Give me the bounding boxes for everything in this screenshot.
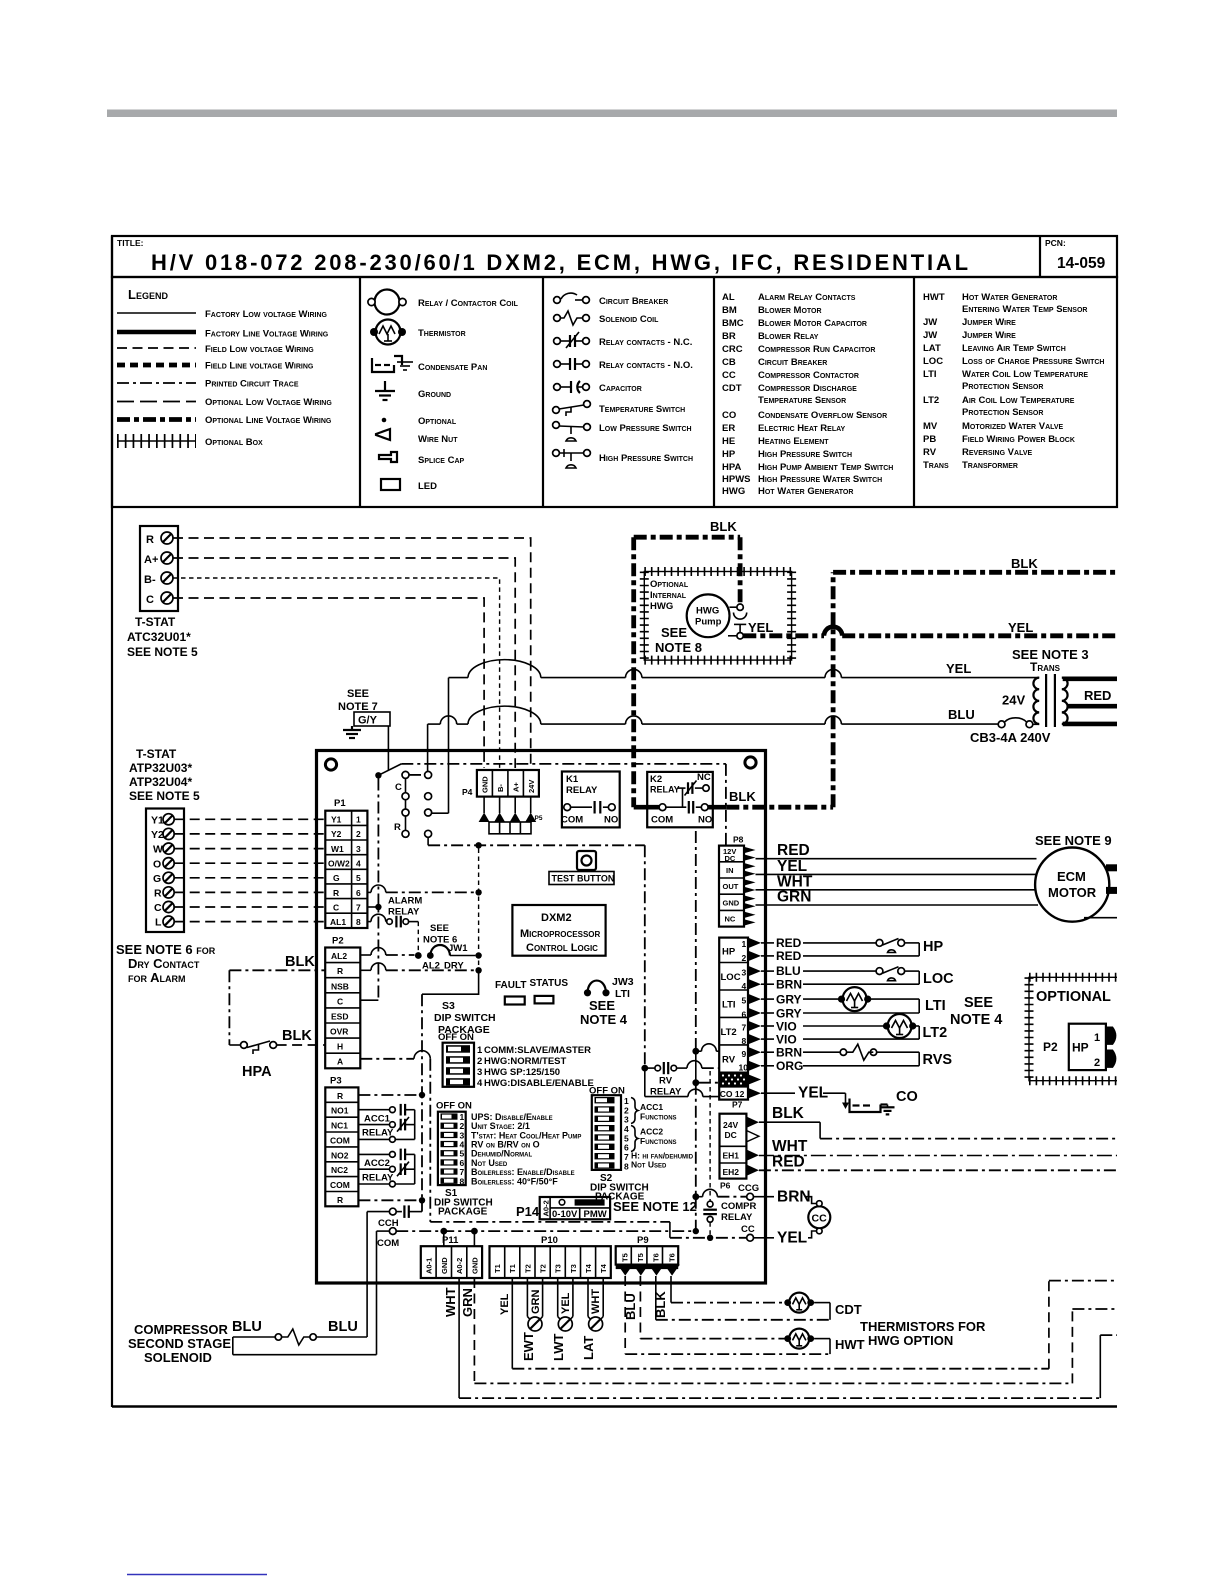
svg-text:8: 8 <box>356 917 361 927</box>
svg-text:P2: P2 <box>1043 1040 1058 1054</box>
relay ACC2 contacts <box>358 1149 414 1187</box>
svg-text:3: 3 <box>477 1067 482 1078</box>
svg-text:24V: 24V <box>723 1120 738 1130</box>
svg-text:ATP32U04*: ATP32U04* <box>129 775 192 789</box>
wire CDT upper lead <box>671 1302 786 1304</box>
svg-text:Boilerless: Enable/Disable: Boilerless: Enable/Disable <box>471 1167 575 1177</box>
svg-text:T5: T5 <box>621 1253 630 1262</box>
svg-text:S3: S3 <box>442 1000 455 1012</box>
svg-text:GRN: GRN <box>777 889 811 906</box>
svg-text:Not Used: Not Used <box>631 1160 667 1170</box>
svg-text:3: 3 <box>742 968 747 978</box>
svg-text:CDT: CDT <box>722 383 742 394</box>
svg-text:OPTIONAL: OPTIONAL <box>1036 989 1111 1005</box>
svg-text:T2: T2 <box>523 1264 532 1273</box>
trace RV relay feed x644 <box>644 845 646 1068</box>
legend symbol: temperature switch <box>553 401 591 416</box>
thermistor CDT <box>784 1293 814 1313</box>
svg-text:BLK: BLK <box>772 1105 805 1122</box>
P2 connector <box>325 948 360 1069</box>
wire GRN GND bottom <box>474 1278 1117 1383</box>
control board outline <box>317 751 766 1284</box>
wire BLK to P2 R from HPA riser <box>229 969 325 971</box>
svg-text:FAULT: FAULT <box>495 980 526 991</box>
svg-text:NO: NO <box>604 815 618 826</box>
svg-text:Jumper Wire: Jumper Wire <box>962 317 1016 328</box>
svg-text:CCG: CCG <box>738 1183 759 1194</box>
svg-text:BRN: BRN <box>777 1189 811 1206</box>
svg-text:Relay / Contactor Coil: Relay / Contactor Coil <box>418 298 519 309</box>
wire BLK thick HWG top <box>634 535 740 540</box>
svg-text:CCH: CCH <box>378 1218 399 1229</box>
svg-text:O: O <box>153 859 161 871</box>
S2 brace ACC2 <box>631 1126 638 1152</box>
svg-text:LAT: LAT <box>581 1336 596 1360</box>
svg-text:TEST BUTTON: TEST BUTTON <box>552 874 615 884</box>
wire B- to P4 B- <box>173 578 500 768</box>
svg-text:K2: K2 <box>650 774 662 785</box>
svg-text:YEL: YEL <box>798 1085 828 1102</box>
svg-text:BLK: BLK <box>282 1028 312 1044</box>
svg-text:MV: MV <box>923 421 938 432</box>
svg-text:HWG: HWG <box>650 601 673 612</box>
legend symbol: splice cap <box>379 452 397 462</box>
svg-text:NC1: NC1 <box>331 1121 348 1131</box>
svg-text:TITLE:: TITLE: <box>117 238 144 248</box>
svg-text:BLU: BLU <box>232 1319 262 1335</box>
wire P2 C to vertical trace <box>360 999 378 1001</box>
svg-text:OFF ON: OFF ON <box>438 1032 474 1043</box>
svg-text:4: 4 <box>356 859 361 869</box>
wires T2 pair to EWT nut <box>527 1278 542 1321</box>
svg-text:RELAY: RELAY <box>650 785 680 795</box>
svg-text:P8: P8 <box>733 835 744 845</box>
transformer secondary coil <box>1062 678 1068 724</box>
svg-text:4: 4 <box>742 981 747 991</box>
wire YEL T1 <box>512 1278 1117 1369</box>
svg-text:SEE NOTE 5: SEE NOTE 5 <box>129 789 200 803</box>
svg-text:LOC: LOC <box>923 356 943 367</box>
wire BRN to CC coil <box>754 1197 817 1204</box>
svg-text:ACC1: ACC1 <box>640 1102 663 1112</box>
trace CC feed line <box>430 1222 746 1238</box>
LED fault <box>505 997 525 1005</box>
svg-text:Thermistor: Thermistor <box>418 328 466 339</box>
svg-text:Circuit Breaker: Circuit Breaker <box>599 296 668 307</box>
svg-text:A: A <box>337 1057 343 1067</box>
svg-text:1: 1 <box>477 1045 483 1056</box>
trace COM line y1231 <box>396 1230 696 1232</box>
svg-text:H: H <box>337 1042 343 1052</box>
svg-text:Solenoid Coil: Solenoid Coil <box>599 314 659 325</box>
svg-text:RED: RED <box>1084 688 1111 703</box>
svg-text:High Pressure Switch: High Pressure Switch <box>599 453 693 464</box>
svg-text:LT2: LT2 <box>923 1025 948 1041</box>
svg-text:JW: JW <box>923 317 937 328</box>
wire CCG with hop <box>699 1189 747 1196</box>
svg-text:NSB: NSB <box>331 982 349 992</box>
svg-text:C: C <box>333 902 339 912</box>
svg-text:LAT: LAT <box>923 343 941 354</box>
svg-text:T5: T5 <box>636 1253 645 1262</box>
svg-text:BLU: BLU <box>948 707 975 722</box>
svg-text:P4: P4 <box>462 787 473 797</box>
svg-text:EH2: EH2 <box>723 1167 740 1177</box>
wire P3 R8 <box>358 1199 418 1201</box>
node alarm relay C7 <box>375 904 381 910</box>
svg-text:Relay contacts - N.O.: Relay contacts - N.O. <box>599 360 693 371</box>
svg-text:SEE: SEE <box>589 998 615 1013</box>
wire BLU 24v drop into board <box>427 724 429 771</box>
svg-text:NO1: NO1 <box>331 1106 349 1116</box>
wires T3 pair to LWT nut <box>558 1278 573 1321</box>
svg-text:Ground: Ground <box>418 389 451 400</box>
svg-text:COMPRESSOR: COMPRESSOR <box>134 1322 229 1337</box>
svg-text:Loss of Charge Pressure Switch: Loss of Charge Pressure Switch <box>962 356 1104 367</box>
svg-text:A+: A+ <box>144 554 158 566</box>
svg-text:Factory Line Voltage Wiring: Factory Line Voltage Wiring <box>205 329 329 340</box>
terminal COM <box>377 1228 397 1235</box>
svg-text:COM: COM <box>377 1238 399 1249</box>
COMPR relay contact <box>703 1071 717 1235</box>
wire CCH riser to solenoid <box>366 1212 368 1337</box>
wire LT2 pin7 VIO <box>761 1025 919 1027</box>
svg-text:VIO: VIO <box>776 1020 797 1034</box>
svg-text:T-STAT: T-STAT <box>136 747 177 761</box>
svg-text:Leaving Air Temp Switch: Leaving Air Temp Switch <box>962 343 1066 354</box>
svg-text:C: C <box>395 782 402 793</box>
svg-text:Functions: Functions <box>640 1136 677 1146</box>
P7 pins <box>748 938 761 1099</box>
svg-text:GND: GND <box>470 1257 479 1274</box>
svg-text:RED: RED <box>776 936 802 950</box>
terminal screws T-STAT2 <box>163 814 174 928</box>
svg-text:Relay contacts - N.C.: Relay contacts - N.C. <box>599 337 692 348</box>
LED status <box>535 996 554 1004</box>
wire LOC pin3 BLU <box>761 970 876 972</box>
svg-text:CB: CB <box>722 357 736 368</box>
riser to HPA <box>228 970 230 1045</box>
svg-text:BLU: BLU <box>328 1319 358 1335</box>
P7 hatched pin 11 cell <box>719 1072 748 1087</box>
svg-text:BLK: BLK <box>1011 556 1038 571</box>
svg-text:OUT: OUT <box>723 882 739 891</box>
svg-text:O/W2: O/W2 <box>328 859 350 869</box>
wires T-STAT2 to P1 <box>174 819 325 921</box>
svg-text:SEE NOTE 9: SEE NOTE 9 <box>1035 833 1112 848</box>
wire LTI pin6 GRY <box>761 1012 919 1014</box>
diagonal jumper from G/Y <box>378 764 401 775</box>
mounting hole top-left <box>325 759 336 770</box>
svg-text:High Pump Ambient Temp Switch: High Pump Ambient Temp Switch <box>758 462 893 473</box>
title block frame <box>112 236 1117 277</box>
svg-text:Low Pressure Switch: Low Pressure Switch <box>599 423 692 434</box>
P9 pins <box>616 1265 680 1276</box>
svg-text:Optional Box: Optional Box <box>205 437 263 448</box>
svg-text:14-059: 14-059 <box>1057 255 1106 272</box>
svg-text:Microprocessor: Microprocessor <box>520 928 601 940</box>
svg-text:STATUS: STATUS <box>530 978 569 989</box>
legend symbol: high pressure switch <box>553 449 591 468</box>
legend box frame <box>112 277 1117 507</box>
wire ECM bottom lead <box>1084 917 1117 919</box>
svg-text:P5: P5 <box>535 815 543 822</box>
svg-text:Motorized Water Valve: Motorized Water Valve <box>962 421 1064 432</box>
pump terminal bottom <box>728 633 743 639</box>
wire hatched pin11 to node <box>699 1082 719 1084</box>
svg-text:T3: T3 <box>554 1264 563 1273</box>
svg-text:1: 1 <box>742 939 747 949</box>
legend symbol: relay contacts N.O. <box>554 358 590 370</box>
svg-text:R: R <box>337 1091 343 1101</box>
svg-text:G: G <box>333 873 340 883</box>
svg-text:Optional: Optional <box>650 579 689 590</box>
svg-text:2: 2 <box>742 953 747 963</box>
svg-text:Field Low voltage Wiring: Field Low voltage Wiring <box>205 344 314 355</box>
jumper JW1 AL2/DRY <box>415 945 476 959</box>
svg-text:NOTE 4: NOTE 4 <box>580 1012 628 1027</box>
svg-text:HP: HP <box>722 947 736 958</box>
legend symbol: relay contacts N.C. <box>554 332 590 348</box>
svg-text:W: W <box>153 844 163 856</box>
wire HWT bracket <box>814 1339 830 1355</box>
svg-text:AL1: AL1 <box>330 917 346 927</box>
svg-text:Temperature Switch: Temperature Switch <box>599 404 685 415</box>
svg-text:G: G <box>153 873 161 885</box>
svg-text:Alarm Relay Contacts: Alarm Relay Contacts <box>758 292 856 303</box>
svg-text:BRN: BRN <box>776 1046 802 1060</box>
S3 dip switch block <box>443 1043 474 1087</box>
svg-text:G/Y: G/Y <box>358 715 378 727</box>
node CC line x710 <box>707 1235 713 1241</box>
svg-text:GND: GND <box>481 776 490 793</box>
svg-text:GND: GND <box>440 1257 449 1274</box>
svg-text:Water Coil Low Temperature: Water Coil Low Temperature <box>962 369 1088 380</box>
svg-text:C: C <box>154 902 162 914</box>
outer drawing border left <box>111 236 113 1407</box>
svg-text:SEE NOTE 5: SEE NOTE 5 <box>127 645 198 659</box>
svg-text:ATC32U01*: ATC32U01* <box>127 630 191 644</box>
wire BLU 24v line <box>428 706 999 724</box>
svg-text:Control Logic: Control Logic <box>526 942 598 954</box>
svg-text:HWT: HWT <box>835 1337 865 1352</box>
svg-text:RV: RV <box>659 1076 673 1087</box>
wire BLK T6 pair <box>656 1276 671 1320</box>
node P11 GND1 <box>440 1228 447 1235</box>
svg-text:HWG: HWG <box>696 606 719 617</box>
jumper poles R <box>402 800 432 838</box>
svg-text:T3: T3 <box>569 1264 578 1273</box>
svg-text:24V: 24V <box>1002 693 1025 708</box>
svg-text:CRC: CRC <box>722 344 743 355</box>
svg-text:9: 9 <box>742 1049 747 1059</box>
svg-text:SEE NOTE 6 for: SEE NOTE 6 for <box>116 942 216 957</box>
wire GRN to ECM <box>756 904 1039 906</box>
ground at G/Y <box>343 726 361 738</box>
node P11 GND2 <box>471 1228 478 1235</box>
svg-text:L: L <box>155 917 162 929</box>
contact CCH <box>367 1205 422 1218</box>
node P2R x478 <box>475 967 481 973</box>
svg-text:K1: K1 <box>566 774 579 785</box>
svg-text:10: 10 <box>739 1063 749 1073</box>
node R6 x478 <box>475 889 481 895</box>
svg-text:24V: 24V <box>527 780 536 793</box>
wire nut EWT <box>528 1317 542 1331</box>
T-STAT ATC32U01 terminal block <box>140 526 178 611</box>
svg-text:YEL: YEL <box>946 661 971 676</box>
svg-text:YEL: YEL <box>1008 620 1033 635</box>
wire RV pin10 ORG <box>761 1065 919 1067</box>
wire P1 AL1 contact <box>367 914 418 952</box>
jumper poles C <box>402 771 432 799</box>
svg-text:R: R <box>154 888 162 900</box>
svg-text:HPWS: HPWS <box>722 474 751 485</box>
wire BLK thick dashed to riser <box>726 805 833 810</box>
wire RV pin9 hop to node <box>699 1044 719 1051</box>
P10 connector <box>490 1246 611 1278</box>
svg-text:7: 7 <box>356 902 361 912</box>
svg-text:Boilerless: 40°F/50°F: Boilerless: 40°F/50°F <box>471 1177 558 1187</box>
svg-text:OVR: OVR <box>330 1027 348 1037</box>
svg-text:GRY: GRY <box>776 993 802 1007</box>
svg-text:T1: T1 <box>508 1264 517 1273</box>
svg-text:P6: P6 <box>720 1181 731 1191</box>
thermistor LT2 <box>883 1014 919 1039</box>
switch LOC <box>876 967 919 985</box>
wire LTI pin5 GRY <box>761 998 919 1000</box>
svg-text:T6: T6 <box>667 1253 676 1262</box>
svg-text:RV: RV <box>722 1055 736 1066</box>
svg-text:Legend: Legend <box>128 287 168 302</box>
legend symbol: thermistor <box>370 320 406 345</box>
HWG pump <box>687 594 730 637</box>
svg-text:RELAY: RELAY <box>566 785 598 796</box>
svg-text:RELAY: RELAY <box>721 1212 753 1223</box>
wire HP pin2 RED <box>761 955 919 957</box>
svg-text:ECM: ECM <box>1057 869 1086 884</box>
svg-text:NC: NC <box>725 915 736 924</box>
solenoid RVS <box>840 1044 919 1066</box>
ECM power stubs <box>1106 864 1117 871</box>
wire G/Y into board <box>387 726 389 770</box>
terminal screws T-STAT1 <box>161 532 173 604</box>
svg-text:Compressor Run Capacitor: Compressor Run Capacitor <box>758 344 875 355</box>
legend line sample: printed circuit trace <box>117 382 196 384</box>
wire WHT to ECM <box>756 889 1036 891</box>
optional internal HWG box (hatched border) <box>644 572 791 661</box>
svg-text:T4: T4 <box>599 1263 608 1273</box>
svg-text:8: 8 <box>624 1161 629 1171</box>
relay ACC1 contacts <box>358 1104 414 1142</box>
mounting hole top-right <box>745 757 756 768</box>
svg-text:NO2: NO2 <box>331 1151 349 1161</box>
legend abbreviation list column A <box>722 292 893 497</box>
svg-text:Protection Sensor: Protection Sensor <box>962 381 1043 392</box>
svg-text:VIO: VIO <box>776 1033 797 1047</box>
wire BLK thick top right <box>833 570 1117 575</box>
legend symbol: circuit breaker <box>554 293 590 303</box>
legend symbol: wire nut <box>376 429 390 440</box>
svg-text:P9: P9 <box>637 1235 649 1246</box>
svg-text:Entering Water Temp Sensor: Entering Water Temp Sensor <box>962 304 1087 315</box>
HPA switch <box>229 1041 276 1054</box>
wire WHT A0-2 bottom <box>459 1278 1117 1398</box>
svg-text:Optional Low Voltage Wiring: Optional Low Voltage Wiring <box>205 397 332 408</box>
svg-text:BLK: BLK <box>729 789 756 804</box>
P6 pins <box>746 1117 759 1176</box>
svg-text:T1: T1 <box>493 1264 502 1273</box>
svg-text:HWG: HWG <box>722 486 745 497</box>
wire YEL to ECM <box>756 873 1036 875</box>
svg-text:Compressor Contactor: Compressor Contactor <box>758 370 859 381</box>
node x422 P3 R1 <box>419 1092 425 1098</box>
wire BLK 24VDC <box>759 1122 1117 1138</box>
transformer core <box>1046 674 1055 727</box>
svg-text:SEE: SEE <box>964 995 993 1011</box>
svg-text:Reversing Valve: Reversing Valve <box>962 447 1032 458</box>
svg-text:for Alarm: for Alarm <box>128 970 186 985</box>
svg-text:2: 2 <box>1094 1057 1100 1069</box>
svg-text:HWG OPTION: HWG OPTION <box>868 1333 953 1348</box>
svg-text:COM: COM <box>561 815 583 826</box>
svg-text:SECOND STAGE: SECOND STAGE <box>128 1336 231 1351</box>
svg-text:Trans: Trans <box>923 460 949 471</box>
svg-text:4: 4 <box>477 1078 483 1089</box>
svg-text:Field Line voltage Wiring: Field Line voltage Wiring <box>205 361 314 372</box>
outer drawing border bottom <box>112 1405 1117 1408</box>
wire BLK thick drop to pump <box>738 537 743 603</box>
trace A row drop x430 <box>429 1059 431 1222</box>
P3 connector <box>325 1087 358 1206</box>
svg-text:8: 8 <box>460 1177 465 1187</box>
wire BLU T5 bottom <box>625 1276 830 1354</box>
svg-text:YEL: YEL <box>560 1292 572 1314</box>
svg-text:R: R <box>333 888 339 898</box>
node CCG junction <box>692 1193 699 1200</box>
svg-text:DXM2: DXM2 <box>541 912 572 924</box>
P11 connector <box>421 1246 482 1278</box>
svg-text:HP: HP <box>1072 1041 1089 1055</box>
wire YEL to CC coil <box>754 1231 817 1238</box>
svg-text:Temperature Sensor: Temperature Sensor <box>758 395 846 406</box>
wire HP pin1 RED <box>761 942 876 944</box>
top gray bar <box>107 110 1117 118</box>
svg-text:CC: CC <box>722 370 736 381</box>
svg-text:RELAY: RELAY <box>362 1173 394 1184</box>
legend symbol: relay/contactor coil <box>368 290 406 315</box>
svg-text:Heating Element: Heating Element <box>758 436 829 447</box>
legend symbol: capacitor <box>554 381 590 393</box>
svg-text:WHT: WHT <box>590 1289 602 1314</box>
svg-text:Splice Cap: Splice Cap <box>418 455 465 466</box>
svg-text:Field Wiring Power Block: Field Wiring Power Block <box>962 434 1075 445</box>
terminal CC <box>747 1234 754 1241</box>
hyperlink underline bottom <box>127 1574 267 1576</box>
wire P1 C7 to trace <box>367 906 378 908</box>
svg-text:COMM:SLAVE/MASTER: COMM:SLAVE/MASTER <box>484 1045 591 1056</box>
svg-text:GRY: GRY <box>776 1007 802 1021</box>
legend line sample: factory line voltage <box>117 330 196 335</box>
contactor coil CC <box>808 1201 830 1234</box>
svg-text:7: 7 <box>460 1167 465 1177</box>
svg-text:NC: NC <box>697 772 711 783</box>
svg-text:WHT: WHT <box>772 1138 808 1155</box>
svg-text:2: 2 <box>356 829 361 839</box>
svg-text:Trans: Trans <box>1030 660 1061 674</box>
svg-text:RELAY: RELAY <box>388 907 420 918</box>
svg-text:COM: COM <box>330 1180 350 1190</box>
